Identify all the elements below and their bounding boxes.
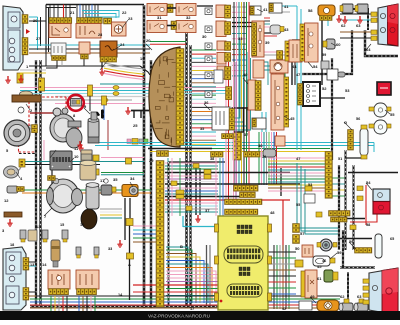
svg-text:19: 19 bbox=[140, 57, 144, 61]
svg-text:18: 18 bbox=[10, 243, 14, 247]
svg-text:22: 22 bbox=[122, 10, 127, 15]
svg-text:40: 40 bbox=[243, 72, 248, 77]
svg-text:62: 62 bbox=[340, 294, 345, 299]
svg-text:28: 28 bbox=[98, 33, 102, 37]
svg-text:55: 55 bbox=[296, 203, 300, 207]
svg-text:55: 55 bbox=[390, 112, 395, 117]
svg-text:13: 13 bbox=[36, 224, 41, 229]
svg-text:12: 12 bbox=[4, 198, 9, 203]
svg-text:61: 61 bbox=[317, 276, 322, 281]
svg-text:25: 25 bbox=[133, 123, 138, 128]
svg-text:44: 44 bbox=[292, 64, 297, 69]
svg-text:35: 35 bbox=[113, 177, 118, 182]
svg-text:15: 15 bbox=[60, 223, 64, 227]
svg-text:14: 14 bbox=[42, 262, 47, 267]
svg-text:26: 26 bbox=[33, 19, 37, 23]
svg-text:41: 41 bbox=[263, 7, 268, 12]
svg-text:34: 34 bbox=[130, 176, 135, 181]
svg-text:47: 47 bbox=[296, 73, 300, 77]
svg-text:39: 39 bbox=[265, 40, 270, 45]
svg-text:54: 54 bbox=[313, 64, 318, 69]
svg-text:53: 53 bbox=[308, 183, 312, 187]
svg-text:59: 59 bbox=[322, 53, 326, 57]
svg-text:42: 42 bbox=[282, 307, 286, 311]
svg-text:16: 16 bbox=[80, 223, 84, 227]
svg-text:39: 39 bbox=[262, 155, 266, 159]
svg-text:17: 17 bbox=[190, 307, 194, 311]
svg-text:29: 29 bbox=[149, 158, 154, 163]
svg-text:63: 63 bbox=[356, 23, 361, 28]
svg-text:57: 57 bbox=[300, 231, 305, 236]
svg-text:24: 24 bbox=[120, 42, 125, 47]
svg-text:45: 45 bbox=[317, 264, 322, 269]
svg-text:37: 37 bbox=[205, 208, 210, 213]
svg-text:47: 47 bbox=[296, 156, 301, 161]
svg-text:13: 13 bbox=[30, 263, 34, 267]
svg-text:45: 45 bbox=[290, 116, 295, 121]
svg-text:10: 10 bbox=[74, 154, 79, 159]
svg-text:33: 33 bbox=[238, 36, 243, 41]
svg-text:43: 43 bbox=[284, 27, 289, 32]
svg-text:35: 35 bbox=[200, 127, 204, 131]
svg-text:33: 33 bbox=[108, 247, 112, 251]
svg-text:46: 46 bbox=[322, 259, 326, 263]
svg-text:VAZ-PROVODKA.NAROD.RU: VAZ-PROVODKA.NAROD.RU bbox=[148, 314, 210, 319]
svg-text:50: 50 bbox=[295, 246, 300, 251]
svg-text:59: 59 bbox=[349, 239, 354, 244]
svg-text:41: 41 bbox=[284, 4, 289, 9]
svg-text:51: 51 bbox=[338, 157, 342, 161]
svg-text:59: 59 bbox=[337, 250, 342, 255]
svg-text:65: 65 bbox=[390, 237, 394, 241]
svg-text:B: B bbox=[180, 244, 183, 249]
svg-text:37: 37 bbox=[244, 133, 248, 137]
svg-text:49: 49 bbox=[310, 294, 315, 299]
svg-text:38: 38 bbox=[210, 157, 214, 161]
svg-text:31: 31 bbox=[157, 15, 162, 20]
svg-text:36: 36 bbox=[204, 100, 209, 105]
svg-text:38: 38 bbox=[258, 143, 263, 148]
svg-text:63: 63 bbox=[357, 294, 362, 299]
svg-text:23: 23 bbox=[128, 16, 133, 21]
svg-text:32: 32 bbox=[186, 15, 191, 20]
svg-text:56: 56 bbox=[356, 117, 360, 121]
svg-text:58: 58 bbox=[366, 223, 370, 227]
svg-text:58: 58 bbox=[308, 8, 313, 13]
svg-text:52: 52 bbox=[322, 86, 327, 91]
svg-text:62: 62 bbox=[341, 23, 346, 28]
svg-text:30: 30 bbox=[202, 34, 207, 39]
svg-text:48: 48 bbox=[270, 210, 275, 215]
svg-text:53: 53 bbox=[345, 88, 350, 93]
svg-text:20: 20 bbox=[146, 38, 151, 43]
svg-text:A: A bbox=[128, 262, 131, 267]
svg-text:21: 21 bbox=[70, 10, 75, 15]
svg-text:60: 60 bbox=[336, 42, 341, 47]
svg-text:27: 27 bbox=[36, 37, 40, 41]
